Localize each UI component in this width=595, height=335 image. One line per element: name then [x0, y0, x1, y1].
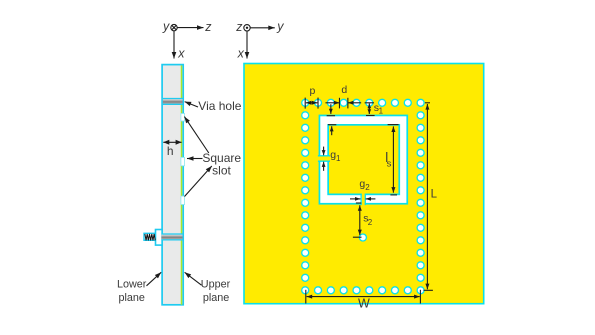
svg-text:slot: slot: [212, 164, 231, 178]
svg-text:y: y: [162, 20, 170, 34]
svg-text:plane: plane: [119, 292, 145, 304]
svg-text:2: 2: [365, 183, 370, 192]
svg-text:z: z: [204, 20, 212, 34]
svg-text:z: z: [235, 20, 243, 34]
svg-text:W: W: [358, 297, 370, 311]
svg-text:x: x: [237, 47, 245, 61]
svg-text:1: 1: [336, 154, 341, 163]
svg-text:y: y: [276, 20, 284, 34]
svg-text:Via hole: Via hole: [198, 99, 241, 113]
svg-text:x: x: [177, 47, 185, 61]
svg-text:2: 2: [368, 218, 373, 227]
svg-text:Upper: Upper: [201, 279, 231, 291]
svg-text:h: h: [167, 144, 174, 158]
svg-text:1: 1: [379, 107, 384, 116]
svg-text:p: p: [309, 85, 315, 97]
svg-text:s: s: [387, 158, 392, 169]
svg-text:d: d: [341, 84, 347, 96]
svg-text:L: L: [431, 189, 438, 201]
svg-text:plane: plane: [203, 292, 229, 304]
svg-text:Lower: Lower: [117, 279, 147, 291]
